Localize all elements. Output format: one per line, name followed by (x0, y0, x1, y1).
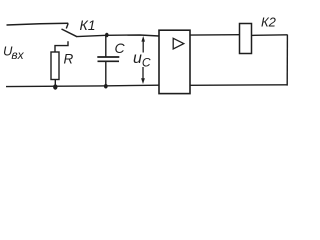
wire node to comparator (77, 35, 159, 37)
junction dot node-capacitor (105, 33, 109, 38)
relay coil K2 (240, 24, 252, 54)
capacitor C bottom lead (105, 61, 107, 86)
voltage arrow uC up (141, 36, 145, 53)
switch K1 fixed contact tick (66, 23, 68, 28)
svg-text:C: C (115, 40, 126, 56)
resistor R (51, 52, 59, 80)
resistor R bottom lead (54, 80, 56, 87)
bottom rail left (6, 85, 159, 86)
voltage arrow uC down (141, 67, 145, 84)
capacitor C bottom plate (98, 60, 120, 62)
svg-text:R: R (64, 51, 74, 66)
wire right vertical (286, 35, 288, 86)
svg-text:uC: uC (133, 50, 151, 69)
wire op-amp output (190, 34, 240, 36)
capacitor C top plate (97, 56, 119, 58)
svg-text:К2: К2 (261, 15, 277, 30)
junction dot resistor-rail (53, 84, 57, 89)
capacitor C top lead (105, 35, 107, 57)
junction dot capacitor-rail (104, 84, 108, 89)
svg-text:К1: К1 (80, 17, 96, 33)
wire input top (7, 23, 69, 25)
switch K1 arm (62, 29, 78, 37)
wire K2 to right corner (252, 34, 288, 37)
resistor R top lead (55, 41, 68, 52)
bottom rail right (190, 84, 288, 87)
op-amp triangle (173, 38, 184, 49)
svg-text:Uвх: Uвх (3, 44, 25, 62)
op-amp comparator box (159, 30, 190, 93)
